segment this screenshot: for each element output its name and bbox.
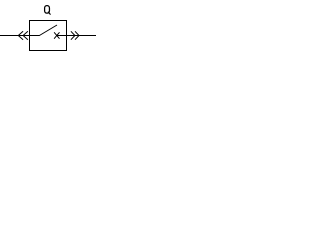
background xyxy=(0,0,96,51)
right withdrawable-contact chevron 2 xyxy=(75,31,79,39)
right withdrawable-contact chevron 1 xyxy=(71,31,75,39)
left withdrawable-contact chevron 2 xyxy=(23,31,28,39)
label Q (device designator, drawn as outline glyph) xyxy=(45,6,51,15)
breaker blade (open switch arm) xyxy=(39,25,57,36)
left withdrawable-contact chevron 1 xyxy=(18,31,23,39)
wire (left terminal, x=0 to pivot) xyxy=(0,35,40,37)
contact cross X (circuit-breaker fixed contact) xyxy=(54,32,59,38)
wire (right terminal, from X to x=96) xyxy=(57,35,96,37)
enclosure box around breaker xyxy=(30,21,67,51)
